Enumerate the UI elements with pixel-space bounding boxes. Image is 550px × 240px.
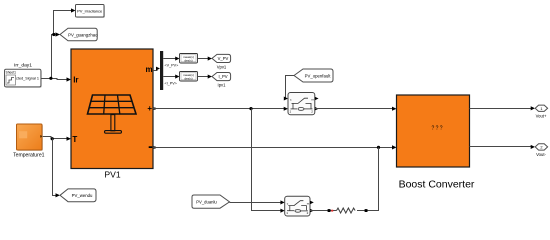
svg-text:Temperature1: Temperature1 (13, 152, 45, 158)
goto tag V_PV (212, 54, 231, 69)
from-spreadsheet block Irr_day1 (5, 62, 42, 87)
wire breaker2 to resistor (310, 210, 337, 212)
junction on Ir wire (49, 77, 52, 80)
wire Temperature1 to PV1 T (43, 137, 71, 141)
svg-text:Vout-: Vout- (536, 152, 546, 157)
svg-text:Ipv1: Ipv1 (218, 83, 227, 88)
wire to PV_wendu (53, 139, 61, 198)
svg-text:cted_Signal 1: cted_Signal 1 (16, 77, 39, 81)
svg-text:Irr_day1: Irr_day1 (14, 62, 32, 68)
wire PV1 m to bus selector (153, 67, 160, 71)
signal source block Temperature1 (13, 124, 45, 158)
from tag PV_openfault (294, 69, 333, 82)
svg-text:I_PV: I_PV (218, 74, 227, 79)
from tag PV_duanlu (192, 195, 230, 208)
junction on + wire (249, 107, 252, 110)
subsystem block Boost Converter (397, 95, 475, 191)
svg-text:Vout+: Vout+ (536, 114, 547, 119)
solar panel icon inside PV1 (88, 95, 137, 133)
terminal dot right of resistor (365, 209, 368, 212)
wire bus selector to measurement block 2 (163, 75, 179, 86)
goto tag PV_wendu (60, 189, 96, 202)
goto tag PV_guangzhao (60, 28, 98, 41)
svg-text:2: 2 (540, 145, 542, 150)
goto tag I_PV (212, 73, 231, 88)
junction on T wire (51, 137, 54, 140)
wire PV_duanlu to breaker2 control (230, 200, 285, 204)
wire Boost Converter to Vout- (470, 145, 536, 149)
svg-text:PV1: PV1 (104, 169, 120, 179)
terminal dot left of resistor (328, 209, 331, 212)
svg-text:? ? ?: ? ? ? (431, 125, 442, 131)
svg-text:Ir: Ir (73, 76, 78, 85)
svg-text:V_PV: V_PV (218, 56, 229, 61)
wire breaker1 to Boost Converter (315, 107, 397, 111)
breaker2 (285, 196, 314, 216)
svg-text:Vpv1: Vpv1 (217, 65, 227, 70)
goto block PV_irradiance (76, 5, 105, 18)
wire bus selector to measurement block 1 (163, 57, 179, 68)
svg-text:PV_openfault: PV_openfault (305, 73, 332, 78)
svg-text:PV_guangzhao: PV_guangzhao (68, 32, 98, 37)
wire Boost Converter to Vout+ (470, 106, 536, 110)
wire to PV_irradiance (54, 8, 76, 34)
wire measurement block 2 to I_PV (198, 75, 213, 79)
svg-text:<I_PV>: <I_PV> (165, 81, 177, 85)
red port marker (331, 210, 333, 212)
outport Vout- (535, 144, 547, 157)
svg-text:des(x): des(x) (184, 59, 192, 63)
svg-text:<V_PV>: <V_PV> (165, 64, 179, 68)
wire resistor to - wire (357, 148, 379, 211)
svg-text:1: 1 (540, 106, 542, 111)
junction on - wire (377, 146, 380, 149)
svg-text:Sheet1: Sheet1 (6, 71, 17, 75)
PV array block PV1 (71, 49, 156, 169)
measurement block 1 (180, 54, 198, 64)
wire PV1 + to breaker1 (153, 107, 288, 111)
svg-text:PV_irradiance: PV_irradiance (77, 8, 103, 13)
breaker1 (288, 93, 319, 115)
svg-text:Boost Converter: Boost Converter (399, 179, 475, 191)
wire measurement block 1 to V_PV (198, 57, 213, 61)
wire Irr_day1 to PV1 Ir (41, 77, 71, 81)
measurement block 2 (180, 72, 198, 82)
bus selector (160, 51, 163, 90)
svg-text:PV_wendu: PV_wendu (72, 193, 93, 198)
wire PV1 - to Boost Converter (153, 145, 397, 149)
svg-text:+: + (147, 104, 152, 113)
svg-text:PV_duanlu: PV_duanlu (196, 199, 217, 204)
svg-text:m: m (145, 65, 152, 74)
resistor R (337, 208, 356, 213)
wire to PV_guangzhao (52, 32, 61, 78)
wire + junction down to breaker2 (252, 109, 285, 213)
junction on PV_guangzhao branch (52, 33, 55, 36)
svg-text:T: T (72, 135, 77, 144)
svg-text:des(x): des(x) (184, 77, 192, 81)
wire PV_openfault to breaker1 control (284, 76, 294, 101)
outport Vout+ (535, 105, 547, 118)
